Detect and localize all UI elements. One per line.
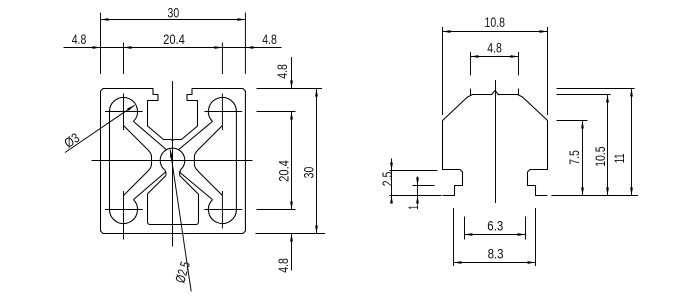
leader dia3 bbox=[65, 105, 135, 152]
slot outline left half bbox=[443, 90, 496, 195]
dim 6.3 bbox=[465, 217, 526, 240]
corner hole top-right bbox=[208, 98, 236, 122]
center hole bbox=[160, 148, 185, 170]
svg-text:10.5: 10.5 bbox=[593, 146, 608, 166]
dim 1 left bbox=[413, 177, 435, 205]
crosshair BR bbox=[204, 191, 242, 229]
leader dia2.5 bbox=[170, 150, 191, 292]
svg-text:20.4: 20.4 bbox=[163, 32, 185, 47]
corner hole top-left bbox=[110, 98, 138, 122]
svg-text:1: 1 bbox=[406, 205, 421, 210]
cavity wall left strip bbox=[109, 112, 111, 210]
crosshair BL bbox=[105, 191, 143, 240]
channel walls left: TL lower, V-face, BL upper bbox=[124, 126, 152, 196]
crosshair TL bbox=[105, 94, 143, 131]
svg-text:4.8: 4.8 bbox=[276, 258, 291, 273]
svg-text:4.8: 4.8 bbox=[487, 40, 502, 55]
dim 2.5 left bbox=[390, 159, 442, 202]
dim 8.3 bbox=[454, 208, 536, 266]
dim 30 top bbox=[101, 13, 246, 75]
svg-text:2.5: 2.5 bbox=[380, 172, 395, 187]
channel TL upper wall bbox=[133, 121, 166, 149]
corner hole bottom-right bbox=[208, 200, 236, 224]
svg-text:10.8: 10.8 bbox=[485, 15, 505, 30]
right side extension lines bbox=[256, 89, 326, 234]
dim 10.5 bbox=[607, 95, 609, 196]
channel BR lower wall bbox=[179, 172, 213, 200]
dim 10.8 bbox=[443, 27, 548, 115]
slot outline right half bbox=[495, 90, 548, 195]
svg-text:20.4: 20.4 bbox=[276, 160, 291, 182]
svg-text:4.8: 4.8 bbox=[275, 64, 290, 79]
cavity wall right strip bbox=[235, 112, 237, 210]
svg-text:30: 30 bbox=[168, 5, 180, 20]
bottom cavity (house) bbox=[148, 170, 199, 225]
crosshair TR bbox=[204, 94, 242, 131]
svg-text:4.8: 4.8 bbox=[262, 32, 277, 47]
corner hole bottom-left bbox=[110, 200, 138, 224]
svg-text:11: 11 bbox=[612, 153, 627, 163]
centerline horizontal bbox=[92, 160, 253, 162]
svg-text:30: 30 bbox=[301, 167, 316, 179]
svg-text:6.3: 6.3 bbox=[487, 218, 503, 233]
centerline vertical bbox=[172, 81, 174, 247]
svg-text:8.3: 8.3 bbox=[488, 246, 504, 261]
dim chain vertical 4.8/20.4/4.8 bbox=[291, 57, 293, 271]
profile outer contour with top slot bbox=[101, 89, 246, 234]
right extension lines bbox=[552, 89, 639, 196]
channel BL lower wall bbox=[133, 172, 166, 200]
dim 30 vertical bbox=[316, 89, 318, 234]
svg-text:7.5: 7.5 bbox=[567, 150, 582, 165]
dim 11 bbox=[631, 89, 633, 196]
dim 7.5 bbox=[582, 121, 584, 196]
channel walls right: TR lower, V-face, BR upper bbox=[194, 126, 222, 196]
dim 4.8 bbox=[471, 52, 519, 95]
centerline bbox=[495, 80, 497, 203]
svg-text:4.8: 4.8 bbox=[72, 32, 87, 47]
channel TR upper wall bbox=[179, 121, 213, 149]
dim row 4.8 / 20.4 / 4.8 bbox=[64, 43, 282, 75]
